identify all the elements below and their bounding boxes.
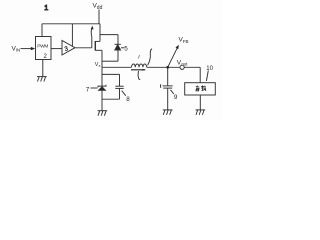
load text: [196, 86, 206, 91]
node VFB label: [179, 37, 189, 44]
wire PWM ground stem: [42, 60, 44, 77]
svg-text:x: x: [99, 63, 101, 68]
figure label 1: [44, 3, 48, 12]
output capacitor curved tick: [159, 84, 162, 88]
svg-text:9: 9: [174, 94, 178, 101]
svg-text:8: 8: [126, 96, 130, 103]
ground under load: [196, 110, 206, 115]
node Vx label: [95, 62, 101, 68]
wire rail drop to driver triangle: [71, 24, 73, 46]
output capacitor 9: [163, 86, 173, 88]
wire rail drop to PWM box: [41, 24, 43, 37]
wire switch-node vertical: [101, 50, 103, 110]
load block 10: [185, 83, 216, 95]
wire drain node horizontal: [102, 60, 118, 62]
wire VIN input arrow: [21, 47, 36, 50]
wire driver output to gate: [75, 47, 92, 49]
svg-text:7: 7: [86, 86, 90, 93]
wire after inductor: [147, 66, 180, 68]
wire PWM output to driver: [51, 48, 62, 50]
transistor Q4 gate bar: [91, 36, 93, 48]
node Vdd label: [93, 3, 103, 12]
zener diode 7: [98, 85, 106, 91]
PWM text: [37, 44, 48, 50]
capacitor 8 bottom stem: [102, 88, 120, 99]
label 7: [86, 86, 98, 93]
svg-text:dd: dd: [97, 5, 103, 11]
faint tick above inductor: [138, 55, 139, 59]
PWM controller block 2: [36, 37, 52, 60]
inductor core line with arrow: [131, 69, 146, 71]
svg-text:5: 5: [124, 46, 128, 53]
svg-text:PWM: PWM: [37, 44, 48, 50]
transistor Q4 source jog: [95, 40, 100, 42]
ground under PWM: [37, 77, 47, 82]
wire load ground stem: [199, 95, 201, 110]
wire diode lower stem: [117, 50, 119, 61]
label 8: [122, 91, 131, 103]
svg-text:IN: IN: [16, 48, 20, 53]
wire Vdd stem: [98, 10, 100, 25]
ground under output capacitor: [163, 110, 173, 115]
node VIN label: [12, 46, 21, 53]
inductor 6: [132, 64, 147, 67]
ground under zener line: [98, 111, 108, 116]
wire diode upper stem: [117, 35, 119, 45]
svg-text:1: 1: [44, 3, 48, 12]
transistor Q4 channel bar: [94, 41, 96, 51]
label 9: [171, 90, 178, 101]
node Vout terminal circle: [180, 65, 184, 69]
capacitor 8: [115, 86, 123, 88]
node VFB arrow: [168, 45, 179, 67]
svg-text:10: 10: [206, 66, 213, 72]
capacitor 8 branch top: [102, 74, 120, 86]
diode 5: [115, 44, 121, 50]
inductor label leader hook below: [138, 71, 140, 79]
op-amp driver triangle 3: [62, 40, 75, 55]
label 2: [44, 54, 48, 60]
transistor Q4 drain lead: [95, 49, 102, 51]
label 5: [121, 46, 128, 53]
label 3 inside triangle: [64, 45, 70, 53]
label 10: [206, 66, 213, 81]
wire diode branch top: [100, 34, 118, 36]
label 4 leader arrow: [91, 26, 94, 37]
node junction dot: [166, 66, 169, 69]
wire top supply rail: [42, 23, 100, 25]
wire rail drop to transistor source: [99, 24, 101, 42]
node Vout label: [177, 59, 188, 66]
wire Vout to load: [184, 67, 200, 82]
wire main output line: [102, 66, 132, 68]
output capacitor lower stem: [167, 88, 169, 110]
output capacitor 9 stem: [167, 67, 169, 85]
svg-text:3: 3: [64, 45, 70, 53]
svg-text:FB: FB: [183, 39, 189, 44]
label 6 curved leader: [148, 49, 152, 66]
